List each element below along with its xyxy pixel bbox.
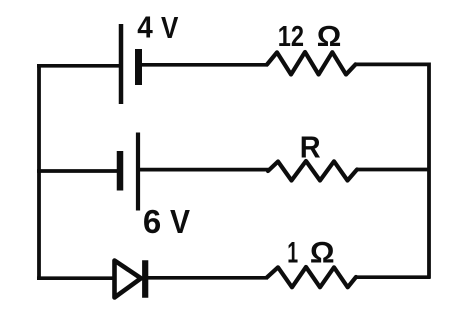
svg-text:1: 1 [287,236,298,269]
wire: right rail [427,63,431,279]
resistor 12 ohm [267,52,356,75]
svg-text:Ω: Ω [317,21,342,53]
svg-text:6: 6 [143,203,161,240]
wire: resistor R to right rail [356,168,430,172]
wire: top branch, left rail to battery [37,64,121,68]
resistor 1 ohm [267,267,356,287]
wire: 12 ohm resistor to right rail [355,63,430,67]
wire: battery to 12 ohm resistor [139,63,269,67]
diode (anode triangle and cathode bar) [115,260,146,298]
wire: battery to resistor R [138,168,269,172]
wire: bottom branch, left rail to diode [37,276,113,280]
wire: diode to 1 ohm resistor [145,276,268,280]
svg-text:12: 12 [278,20,304,53]
svg-text:Ω: Ω [310,236,335,270]
svg-text:V: V [161,11,178,46]
wire: middle branch, left rail to battery [37,169,120,173]
svg-text:V: V [170,203,190,241]
resistor R [268,161,357,181]
wire: left rail [37,65,41,280]
battery 4 V cell (long plate left, short plate right) [121,24,139,104]
battery 6 V cell (short plate left, long plate right) [120,133,138,211]
wire: 1 ohm resistor to right rail [355,275,430,279]
svg-text:4: 4 [137,10,153,45]
svg-text:R: R [300,131,321,165]
